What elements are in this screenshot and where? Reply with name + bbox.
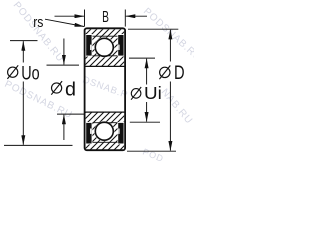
svg-text:Ui: Ui: [144, 83, 162, 103]
seal right (top section): [118, 34, 125, 56]
bore line (bottom section): [85, 111, 125, 113]
label ØD: [159, 66, 170, 80]
ØUi extension line top: [129, 57, 155, 59]
bearing inner ring section (bottom) hatch: [86, 112, 125, 149]
label ØUi: [131, 87, 141, 100]
raceway shoulder line (bottom section inner): [86, 122, 125, 124]
label ØUo: [7, 65, 18, 79]
ØUi dimension arrow down: [146, 102, 148, 122]
B dimension arrow right: [126, 15, 147, 17]
svg-text:Uo: Uo: [21, 63, 39, 84]
seal right (bottom section): [118, 122, 125, 144]
ØUo dimension arrow down: [22, 82, 24, 145]
label Ød: [51, 81, 62, 95]
svg-text:rs: rs: [33, 15, 43, 31]
svg-text:D: D: [174, 62, 185, 84]
B width extension line left: [84, 10, 86, 27]
ØD dimension arrow up: [169, 30, 171, 62]
rs leader arrow: [45, 19, 84, 26]
ball (bottom section): [94, 121, 114, 141]
ØUo extension line bottom: [4, 144, 73, 146]
raceway shoulder line (top section outer): [86, 35, 125, 37]
ØD extension line top: [128, 28, 178, 30]
B width extension line right: [124, 10, 126, 27]
bore line (top section): [85, 65, 125, 67]
ØUo extension line top: [10, 40, 38, 42]
B dimension arrow left: [55, 15, 85, 17]
ØUi dimension arrow up: [146, 59, 148, 85]
ØD dimension arrow down: [169, 82, 171, 151]
Ød extension line top: [47, 64, 80, 66]
raceway shoulder line (bottom section outer): [86, 141, 125, 143]
Ød extension line bottom: [57, 113, 85, 115]
ØD extension line bottom: [127, 150, 176, 152]
ball (top section): [94, 37, 114, 57]
ØUo dimension arrow up: [22, 41, 24, 62]
Ød dimension arrow down (outside above): [63, 39, 65, 65]
svg-text:B: B: [102, 9, 109, 26]
ØUi extension line bottom: [130, 121, 160, 123]
bearing outline: [85, 28, 126, 150]
seal left (top section): [85, 34, 92, 56]
svg-text:d: d: [65, 78, 76, 100]
raceway shoulder line (top section inner): [86, 55, 125, 57]
watermark: [3, 0, 204, 164]
bearing outer ring section (top) hatch: [86, 29, 125, 66]
Ød dimension arrow up (outside below): [63, 115, 65, 140]
seal left (bottom section): [85, 122, 92, 144]
